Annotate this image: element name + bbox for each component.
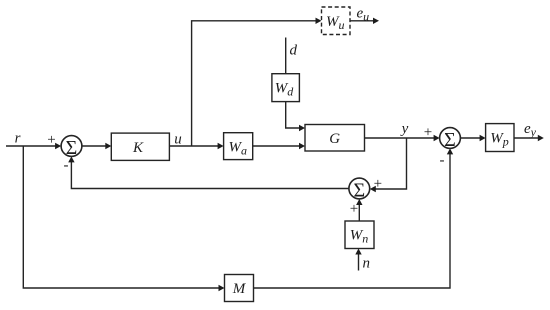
svg-text:-: - [64, 157, 69, 173]
wire sum1 to K [82, 145, 106, 147]
summing junction sum2 [349, 178, 370, 199]
arrow into sum1 [55, 143, 61, 149]
svg-text:d: d [290, 43, 298, 59]
block Wu dashed [322, 7, 351, 35]
wire Wu to eu [350, 20, 374, 22]
wire Wn to sum2 [358, 204, 360, 221]
arrow into sum3 from G [434, 135, 440, 141]
block G [305, 125, 365, 152]
svg-text:n: n [363, 256, 371, 272]
svg-text:r: r [15, 131, 21, 147]
svg-text:+: + [47, 132, 55, 148]
arrow into G from Wa [299, 143, 305, 149]
block Wn [345, 221, 374, 249]
svg-text:+: + [350, 201, 358, 217]
wire M to sum3 [254, 154, 450, 288]
arrow ey output [538, 135, 544, 141]
wire u branch up to Wu [192, 21, 317, 146]
block Wa [224, 133, 253, 160]
svg-text:+: + [374, 176, 382, 192]
block M [225, 275, 254, 302]
svg-text:Σ: Σ [353, 180, 365, 202]
wire n input [358, 254, 360, 271]
wire d input [285, 38, 287, 74]
block Wd [272, 74, 300, 102]
summing junction sum3 [440, 128, 461, 149]
svg-text:Σ: Σ [444, 129, 456, 151]
arrow into Wu [316, 18, 322, 24]
block K [111, 133, 169, 160]
arrow into Wa [218, 143, 224, 149]
block Wp [486, 124, 514, 152]
wire K to Wa [169, 145, 218, 147]
arrow into sum3 from below [447, 148, 453, 154]
wire G to sum3 [365, 137, 435, 139]
arrow into sum2 from Wn [356, 199, 362, 205]
arrow into sum2 from right [370, 186, 376, 192]
svg-text:K: K [132, 140, 144, 156]
summing junction sum1 [61, 136, 82, 157]
arrow into Wn (n) [355, 249, 361, 255]
svg-text:M: M [232, 281, 247, 297]
svg-text:y: y [400, 121, 409, 137]
svg-text:-: - [440, 152, 445, 168]
wire r branch down to M [23, 146, 219, 288]
arrow into Wp [480, 135, 486, 141]
arrow into G from Wd [299, 125, 305, 131]
svg-text:+: + [424, 125, 432, 141]
arrow into M [219, 285, 225, 291]
arrow into sum1 from below [68, 156, 74, 162]
arrow into K [105, 143, 111, 149]
arrow eu output [373, 18, 379, 24]
wire Wd to G [286, 102, 300, 128]
wire Wa to G [253, 145, 300, 147]
svg-text:G: G [329, 131, 340, 147]
wire sum3 to Wp [460, 137, 480, 139]
wire r input [6, 145, 56, 147]
svg-text:u: u [174, 132, 182, 148]
wire sum2 output left [71, 162, 349, 189]
svg-text:Σ: Σ [66, 137, 78, 159]
wire Wp to ey [514, 137, 539, 139]
wire y branch down to sum2 [375, 138, 406, 189]
